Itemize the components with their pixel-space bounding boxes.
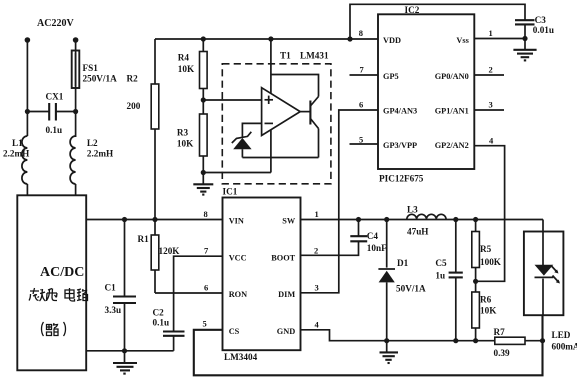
svg-text:3: 3 bbox=[489, 100, 493, 110]
resistor R5 bbox=[472, 220, 502, 282]
wire L2 to AC/DC box bbox=[75, 184, 77, 196]
wire T1 emitter bottom rail bbox=[242, 157, 318, 159]
svg-text:2.2mH: 2.2mH bbox=[3, 149, 29, 159]
wire GP1/AN1 stub bbox=[474, 109, 504, 111]
zener diode inside T1 bbox=[232, 132, 252, 158]
node C1 top junction bbox=[122, 217, 127, 222]
wire minus input to zener bbox=[242, 123, 261, 137]
IC2 PIC12F675 box bbox=[378, 5, 474, 184]
svg-text:5: 5 bbox=[203, 319, 207, 329]
node C3/Vss junction bbox=[522, 36, 527, 41]
svg-text:VIN: VIN bbox=[229, 217, 244, 226]
svg-text:DIM: DIM bbox=[278, 290, 295, 299]
svg-text:1: 1 bbox=[315, 209, 319, 219]
svg-text:GND: GND bbox=[277, 327, 295, 336]
svg-text:R7: R7 bbox=[494, 327, 506, 337]
svg-text:250V/1A: 250V/1A bbox=[83, 74, 118, 84]
svg-text:8: 8 bbox=[359, 28, 363, 38]
svg-text:C5: C5 bbox=[435, 258, 447, 268]
svg-text:LM3404: LM3404 bbox=[224, 352, 258, 362]
svg-text:100K: 100K bbox=[480, 257, 502, 267]
svg-text:CS: CS bbox=[229, 327, 240, 336]
capacitor C2 bbox=[153, 308, 185, 351]
(略) text bbox=[42, 322, 66, 336]
capacitor C5 bbox=[435, 220, 462, 341]
ground below D1 bbox=[380, 341, 399, 363]
svg-text:3: 3 bbox=[315, 283, 319, 293]
svg-text:SW: SW bbox=[282, 217, 296, 226]
node T1 cathode top junction bbox=[268, 36, 273, 41]
LED D2 symbol bbox=[535, 232, 577, 352]
svg-text:2: 2 bbox=[314, 246, 318, 256]
node C4 top junction bbox=[356, 217, 361, 222]
op-amp U1 comparator of T1 bbox=[262, 88, 301, 136]
node C5 bottom junction bbox=[453, 338, 458, 343]
svg-text:0.39: 0.39 bbox=[494, 348, 510, 358]
svg-text:1u: 1u bbox=[435, 271, 445, 281]
svg-text:0.1u: 0.1u bbox=[153, 318, 170, 328]
inductor L1 bbox=[3, 136, 29, 184]
svg-text:6: 6 bbox=[359, 100, 363, 110]
AC/DC block text bbox=[40, 265, 84, 280]
svg-text:10K: 10K bbox=[177, 139, 194, 149]
svg-text:R1: R1 bbox=[138, 234, 150, 244]
capacitor C1 bbox=[105, 220, 137, 351]
wire left input down to L1 bbox=[26, 40, 28, 136]
wire L1 to AC/DC box bbox=[26, 184, 28, 196]
svg-text:7: 7 bbox=[204, 246, 209, 256]
转换电路 text bbox=[29, 288, 88, 301]
diode D1 bbox=[378, 220, 426, 341]
svg-text:4: 4 bbox=[489, 136, 494, 146]
wire CS to bottom return bbox=[194, 315, 543, 375]
wire SW rail to LED bbox=[301, 219, 544, 221]
svg-text:4: 4 bbox=[315, 320, 320, 330]
svg-text:R5: R5 bbox=[480, 244, 492, 254]
svg-text:6: 6 bbox=[204, 283, 208, 293]
resistor R3 bbox=[177, 100, 207, 173]
wire GP5 stub bbox=[350, 74, 379, 76]
svg-text:0.1u: 0.1u bbox=[46, 125, 63, 135]
svg-text:GP3/VPP: GP3/VPP bbox=[383, 141, 417, 150]
svg-text:2.2mH: 2.2mH bbox=[87, 149, 113, 159]
svg-text:1: 1 bbox=[489, 28, 493, 38]
svg-text:GP0/AN0: GP0/AN0 bbox=[435, 72, 469, 81]
node R3 bottom junction bbox=[201, 170, 206, 175]
inductor L2 bbox=[70, 136, 113, 184]
svg-text:C3: C3 bbox=[535, 15, 547, 25]
resistor R7 bbox=[476, 327, 543, 358]
capacitor C4 bbox=[350, 220, 387, 254]
svg-text:R3: R3 bbox=[177, 128, 189, 138]
wire right input down to FS1 bbox=[75, 40, 77, 51]
wire BOOT to C4 bbox=[301, 242, 359, 256]
svg-text:L2: L2 bbox=[87, 138, 98, 148]
capacitor CX1 bbox=[27, 92, 75, 136]
node R6 bottom junction bbox=[473, 338, 478, 343]
svg-text:L3: L3 bbox=[407, 205, 418, 215]
wire VDD riser and top rail to C3 bbox=[350, 4, 525, 39]
resistor R6 bbox=[472, 281, 497, 340]
svg-text:LED: LED bbox=[552, 330, 571, 340]
ground below C3 bbox=[513, 39, 536, 61]
capacitor C3 bbox=[515, 15, 554, 39]
wire divider to op-amp plus input bbox=[203, 99, 261, 101]
svg-text:BOOT: BOOT bbox=[271, 254, 295, 263]
node VDD riser junction bbox=[347, 36, 352, 41]
wire FS1 to CX1 junction bbox=[75, 88, 77, 137]
svg-text:IC1: IC1 bbox=[223, 187, 238, 197]
svg-text:L1: L1 bbox=[12, 138, 23, 148]
node R7/LED junction bbox=[540, 338, 545, 343]
wire T1 cathode vertical bbox=[270, 39, 272, 173]
node D1 top junction bbox=[384, 217, 389, 222]
svg-text:10K: 10K bbox=[178, 64, 195, 74]
svg-text:IC2: IC2 bbox=[405, 5, 420, 15]
svg-text:50V/1A: 50V/1A bbox=[396, 284, 426, 294]
wire RON to R1 bbox=[155, 292, 223, 294]
svg-text:600mA: 600mA bbox=[552, 342, 577, 352]
svg-text:10nF: 10nF bbox=[367, 243, 387, 253]
svg-text:R4: R4 bbox=[178, 53, 190, 63]
svg-text:CX1: CX1 bbox=[46, 92, 64, 102]
svg-text:VCC: VCC bbox=[229, 254, 247, 263]
IC1 LM3404 box bbox=[223, 187, 301, 363]
svg-text:C2: C2 bbox=[153, 308, 165, 318]
AC/DC converter block bbox=[17, 195, 86, 370]
wire R3 bottom to T1 anode bbox=[203, 172, 271, 174]
transistor internal of T1 bbox=[300, 97, 318, 158]
node D1 bottom junction bbox=[384, 338, 389, 343]
node C5 top junction bbox=[453, 217, 458, 222]
wire AC/DC bottom rail bbox=[86, 350, 173, 352]
svg-text:FS1: FS1 bbox=[83, 63, 99, 73]
node R2/R1 junction bbox=[152, 217, 157, 222]
node R5/R6 junction bbox=[473, 279, 478, 284]
dashed box T1 LM431 bbox=[222, 51, 331, 184]
svg-text:8: 8 bbox=[204, 209, 208, 219]
ground below C1 bbox=[113, 351, 137, 374]
svg-text:0.01u: 0.01u bbox=[533, 25, 554, 35]
svg-text:200: 200 bbox=[127, 101, 141, 111]
svg-text:47uH: 47uH bbox=[407, 227, 428, 237]
node R4 top junction bbox=[201, 36, 206, 41]
fuse FS1 bbox=[72, 51, 117, 89]
svg-text:5: 5 bbox=[359, 135, 363, 145]
svg-text:C1: C1 bbox=[105, 283, 117, 293]
svg-text:D1: D1 bbox=[397, 258, 409, 268]
node junction right CX1 bbox=[73, 109, 78, 114]
resistor R1 bbox=[138, 220, 181, 294]
svg-text:PIC12F675: PIC12F675 bbox=[379, 174, 424, 184]
wire VCC to C2 bbox=[174, 256, 223, 331]
svg-text:AC220V: AC220V bbox=[37, 18, 74, 29]
wire GP4/AN3 to DIM bbox=[301, 110, 379, 293]
node C1 bottom junction bbox=[122, 348, 127, 353]
svg-text:AC/DC: AC/DC bbox=[40, 265, 84, 280]
LED module box bbox=[524, 232, 564, 316]
wire top rail bbox=[155, 38, 378, 40]
svg-text:2: 2 bbox=[489, 65, 493, 75]
svg-text:LM431: LM431 bbox=[300, 51, 329, 61]
svg-text:10K: 10K bbox=[480, 306, 497, 316]
node R4/R3 divider junction bbox=[201, 97, 206, 102]
wire GP2/AN2 to feedback divider bbox=[474, 146, 504, 282]
node AC live terminal bbox=[25, 37, 31, 43]
svg-text:RON: RON bbox=[229, 290, 247, 299]
ground below R3 bbox=[193, 173, 213, 195]
svg-text:GP4/AN3: GP4/AN3 bbox=[383, 107, 417, 116]
node junction left CX1 bbox=[25, 109, 30, 114]
svg-text:C4: C4 bbox=[367, 231, 379, 241]
wire GP0/AN0 stub bbox=[474, 74, 504, 76]
wire VIN rail from AC/DC to IC1 bbox=[86, 219, 222, 221]
wire GP3/VPP stub bbox=[350, 143, 379, 145]
node AC neutral terminal bbox=[73, 37, 79, 43]
node R5 top junction bbox=[473, 217, 478, 222]
svg-text:VDD: VDD bbox=[383, 36, 401, 45]
wire GND pin to sense rail bbox=[301, 330, 476, 341]
svg-text:7: 7 bbox=[360, 65, 365, 75]
svg-text:R2: R2 bbox=[127, 74, 139, 84]
wire Vss to C3 bottom bbox=[474, 38, 525, 40]
resistor R4 bbox=[178, 39, 207, 100]
svg-text:GP5: GP5 bbox=[383, 72, 399, 81]
svg-text:T1: T1 bbox=[280, 51, 291, 61]
svg-text:120K: 120K bbox=[159, 246, 181, 256]
resistor R2 bbox=[127, 39, 159, 220]
svg-text:GP2/AN2: GP2/AN2 bbox=[435, 141, 469, 150]
wire T1 collector top link bbox=[271, 75, 319, 97]
inductor L3 bbox=[407, 205, 446, 237]
svg-text:GP1/AN1: GP1/AN1 bbox=[435, 107, 469, 116]
svg-text:Vss: Vss bbox=[456, 36, 469, 45]
svg-text:3.3u: 3.3u bbox=[105, 305, 122, 315]
svg-text:R6: R6 bbox=[480, 295, 492, 305]
